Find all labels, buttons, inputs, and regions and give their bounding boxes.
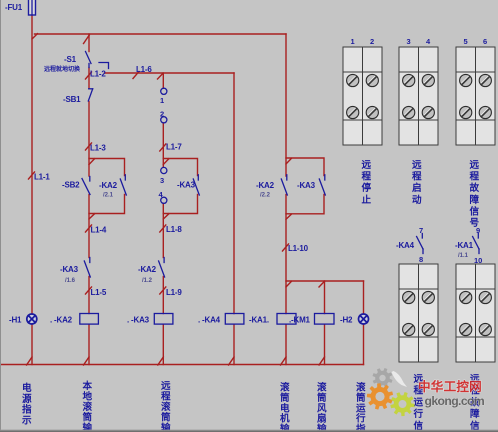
svg-text:L1-2: L1-2 [90, 70, 106, 79]
svg-text:. -KA4: . -KA4 [198, 316, 221, 325]
svg-text:-H1: -H1 [9, 316, 22, 325]
svg-text:-H2: -H2 [340, 316, 353, 325]
svg-text:L1-3: L1-3 [90, 144, 106, 153]
svg-text:L1-6: L1-6 [136, 65, 152, 74]
svg-text:-SB1: -SB1 [63, 95, 81, 104]
svg-text:. -KA3: . -KA3 [127, 316, 150, 325]
svg-text:3: 3 [160, 176, 164, 185]
svg-text:L1-7: L1-7 [166, 143, 182, 152]
svg-text:3: 3 [407, 37, 411, 46]
svg-text:2: 2 [370, 37, 374, 46]
svg-text:-KA3: -KA3 [60, 265, 79, 274]
svg-text:L1-9: L1-9 [166, 288, 182, 297]
svg-text:gkong.com: gkong.com [425, 394, 485, 408]
svg-text:滚筒风扇输出: 滚筒风扇输出 [317, 382, 327, 432]
svg-text:8: 8 [419, 255, 423, 264]
svg-text:/1.6: /1.6 [65, 278, 76, 284]
svg-text:/1.2: /1.2 [142, 278, 153, 284]
svg-text:-FU1: -FU1 [5, 3, 23, 12]
svg-text:-KA3: -KA3 [297, 181, 316, 190]
svg-text:.-KM1: .-KM1 [289, 316, 311, 325]
svg-text:/2.1: /2.1 [103, 193, 114, 199]
svg-text:-KA1.: -KA1. [249, 316, 269, 325]
svg-text:本地滚筒输送: 本地滚筒输送 [82, 380, 93, 432]
svg-text:L1-8: L1-8 [166, 225, 182, 234]
svg-text:远程启动: 远程启动 [412, 160, 422, 206]
svg-text:-KA2: -KA2 [256, 181, 275, 190]
svg-text:-KA1: -KA1 [455, 241, 474, 250]
svg-text:/1.1: /1.1 [458, 253, 469, 259]
svg-text:-KA4: -KA4 [396, 241, 415, 250]
svg-text:-KA2: -KA2 [138, 265, 157, 274]
svg-text:中华工控网: 中华工控网 [418, 379, 482, 394]
svg-text:远程就地切换: 远程就地切换 [44, 65, 81, 73]
svg-text:7: 7 [419, 226, 423, 235]
svg-text:滚筒运行指示: 滚筒运行指示 [355, 382, 366, 432]
svg-text:L1-4: L1-4 [91, 226, 107, 235]
svg-text:远程停止: 远程停止 [362, 160, 372, 206]
svg-text:远程故障信号: 远程故障信号 [470, 160, 480, 229]
svg-text:L1-10: L1-10 [288, 244, 309, 253]
svg-text:6: 6 [483, 37, 487, 46]
svg-text:-S1: -S1 [64, 55, 77, 64]
svg-text:远程滚筒输送: 远程滚筒输送 [160, 381, 171, 432]
svg-text:/2.2: /2.2 [260, 193, 271, 199]
svg-text:2: 2 [160, 110, 164, 119]
svg-text:5: 5 [464, 37, 468, 46]
svg-text:1: 1 [351, 37, 355, 46]
svg-text:-KA2: -KA2 [99, 181, 118, 190]
svg-text:电源指示: 电源指示 [21, 382, 32, 426]
svg-text:滚筒电机输出: 滚筒电机输出 [280, 382, 290, 432]
svg-text:. -KA2: . -KA2 [50, 316, 73, 325]
svg-text:L1-1: L1-1 [34, 173, 50, 182]
svg-text:-KA3: -KA3 [177, 181, 196, 190]
svg-text:L1-5: L1-5 [91, 288, 107, 297]
svg-text:-SB2: -SB2 [62, 181, 80, 190]
svg-text:1: 1 [160, 96, 164, 105]
svg-text:10: 10 [474, 256, 482, 265]
